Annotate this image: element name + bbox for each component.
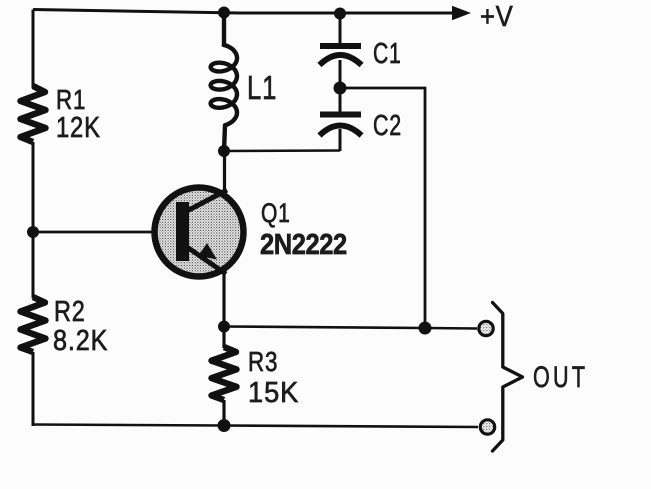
transistor Q1: [155, 188, 244, 277]
svg-text:8.2K: 8.2K: [53, 323, 108, 356]
wire base: [33, 231, 156, 234]
capacitor C2: [320, 112, 362, 136]
label Q1 2N2222: [260, 199, 347, 261]
wire tap to output: [340, 88, 425, 328]
node C1 C2 junction: [334, 82, 347, 95]
svg-text:2N2222: 2N2222: [260, 227, 347, 260]
wire emitter row: [224, 327, 477, 329]
inductor L1: [211, 12, 237, 152]
svg-text:OUT: OUT: [533, 359, 588, 393]
svg-text:R3: R3: [248, 347, 278, 378]
svg-text:+V: +V: [480, 0, 514, 32]
node L1 bottom: [218, 145, 230, 157]
resistor R2: [21, 297, 46, 352]
node C1 top: [334, 8, 346, 20]
svg-text:Q1: Q1: [261, 199, 291, 229]
wire left rail upper: [32, 10, 35, 89]
+V power arrow: [452, 6, 471, 20]
wire C1 top lead: [339, 13, 342, 44]
wire bottom rail: [33, 425, 478, 428]
wire emitter: [222, 272, 225, 327]
resistor R1: [21, 86, 46, 142]
wire C2 bottom lead: [339, 129, 342, 151]
node R3 bottom: [218, 419, 231, 432]
label R1 12K: [56, 85, 101, 144]
node output junction: [419, 322, 432, 335]
wire collector: [223, 151, 226, 192]
node L1 top: [218, 7, 230, 19]
svg-text:C1: C1: [373, 38, 402, 70]
terminal OUT upper: [479, 321, 493, 335]
wire C1-C2: [339, 60, 342, 113]
resistor R3: [212, 326, 237, 426]
wire top rail: [33, 10, 453, 14]
svg-text:C2: C2: [373, 110, 402, 142]
label R3 15K: [248, 347, 299, 408]
svg-text:12K: 12K: [56, 111, 101, 144]
wire L1 to C2 bottom: [224, 149, 340, 152]
svg-text:15K: 15K: [248, 376, 299, 408]
node emitter junction: [218, 321, 230, 333]
node base junction: [27, 226, 39, 238]
label R2 8.2K: [53, 295, 108, 357]
svg-text:L1: L1: [247, 70, 277, 107]
wire left rail lower: [32, 352, 35, 426]
capacitor C1: [320, 43, 362, 65]
terminal OUT lower: [480, 420, 494, 434]
brace OUT: [493, 303, 523, 452]
wire left rail middle: [32, 142, 35, 298]
